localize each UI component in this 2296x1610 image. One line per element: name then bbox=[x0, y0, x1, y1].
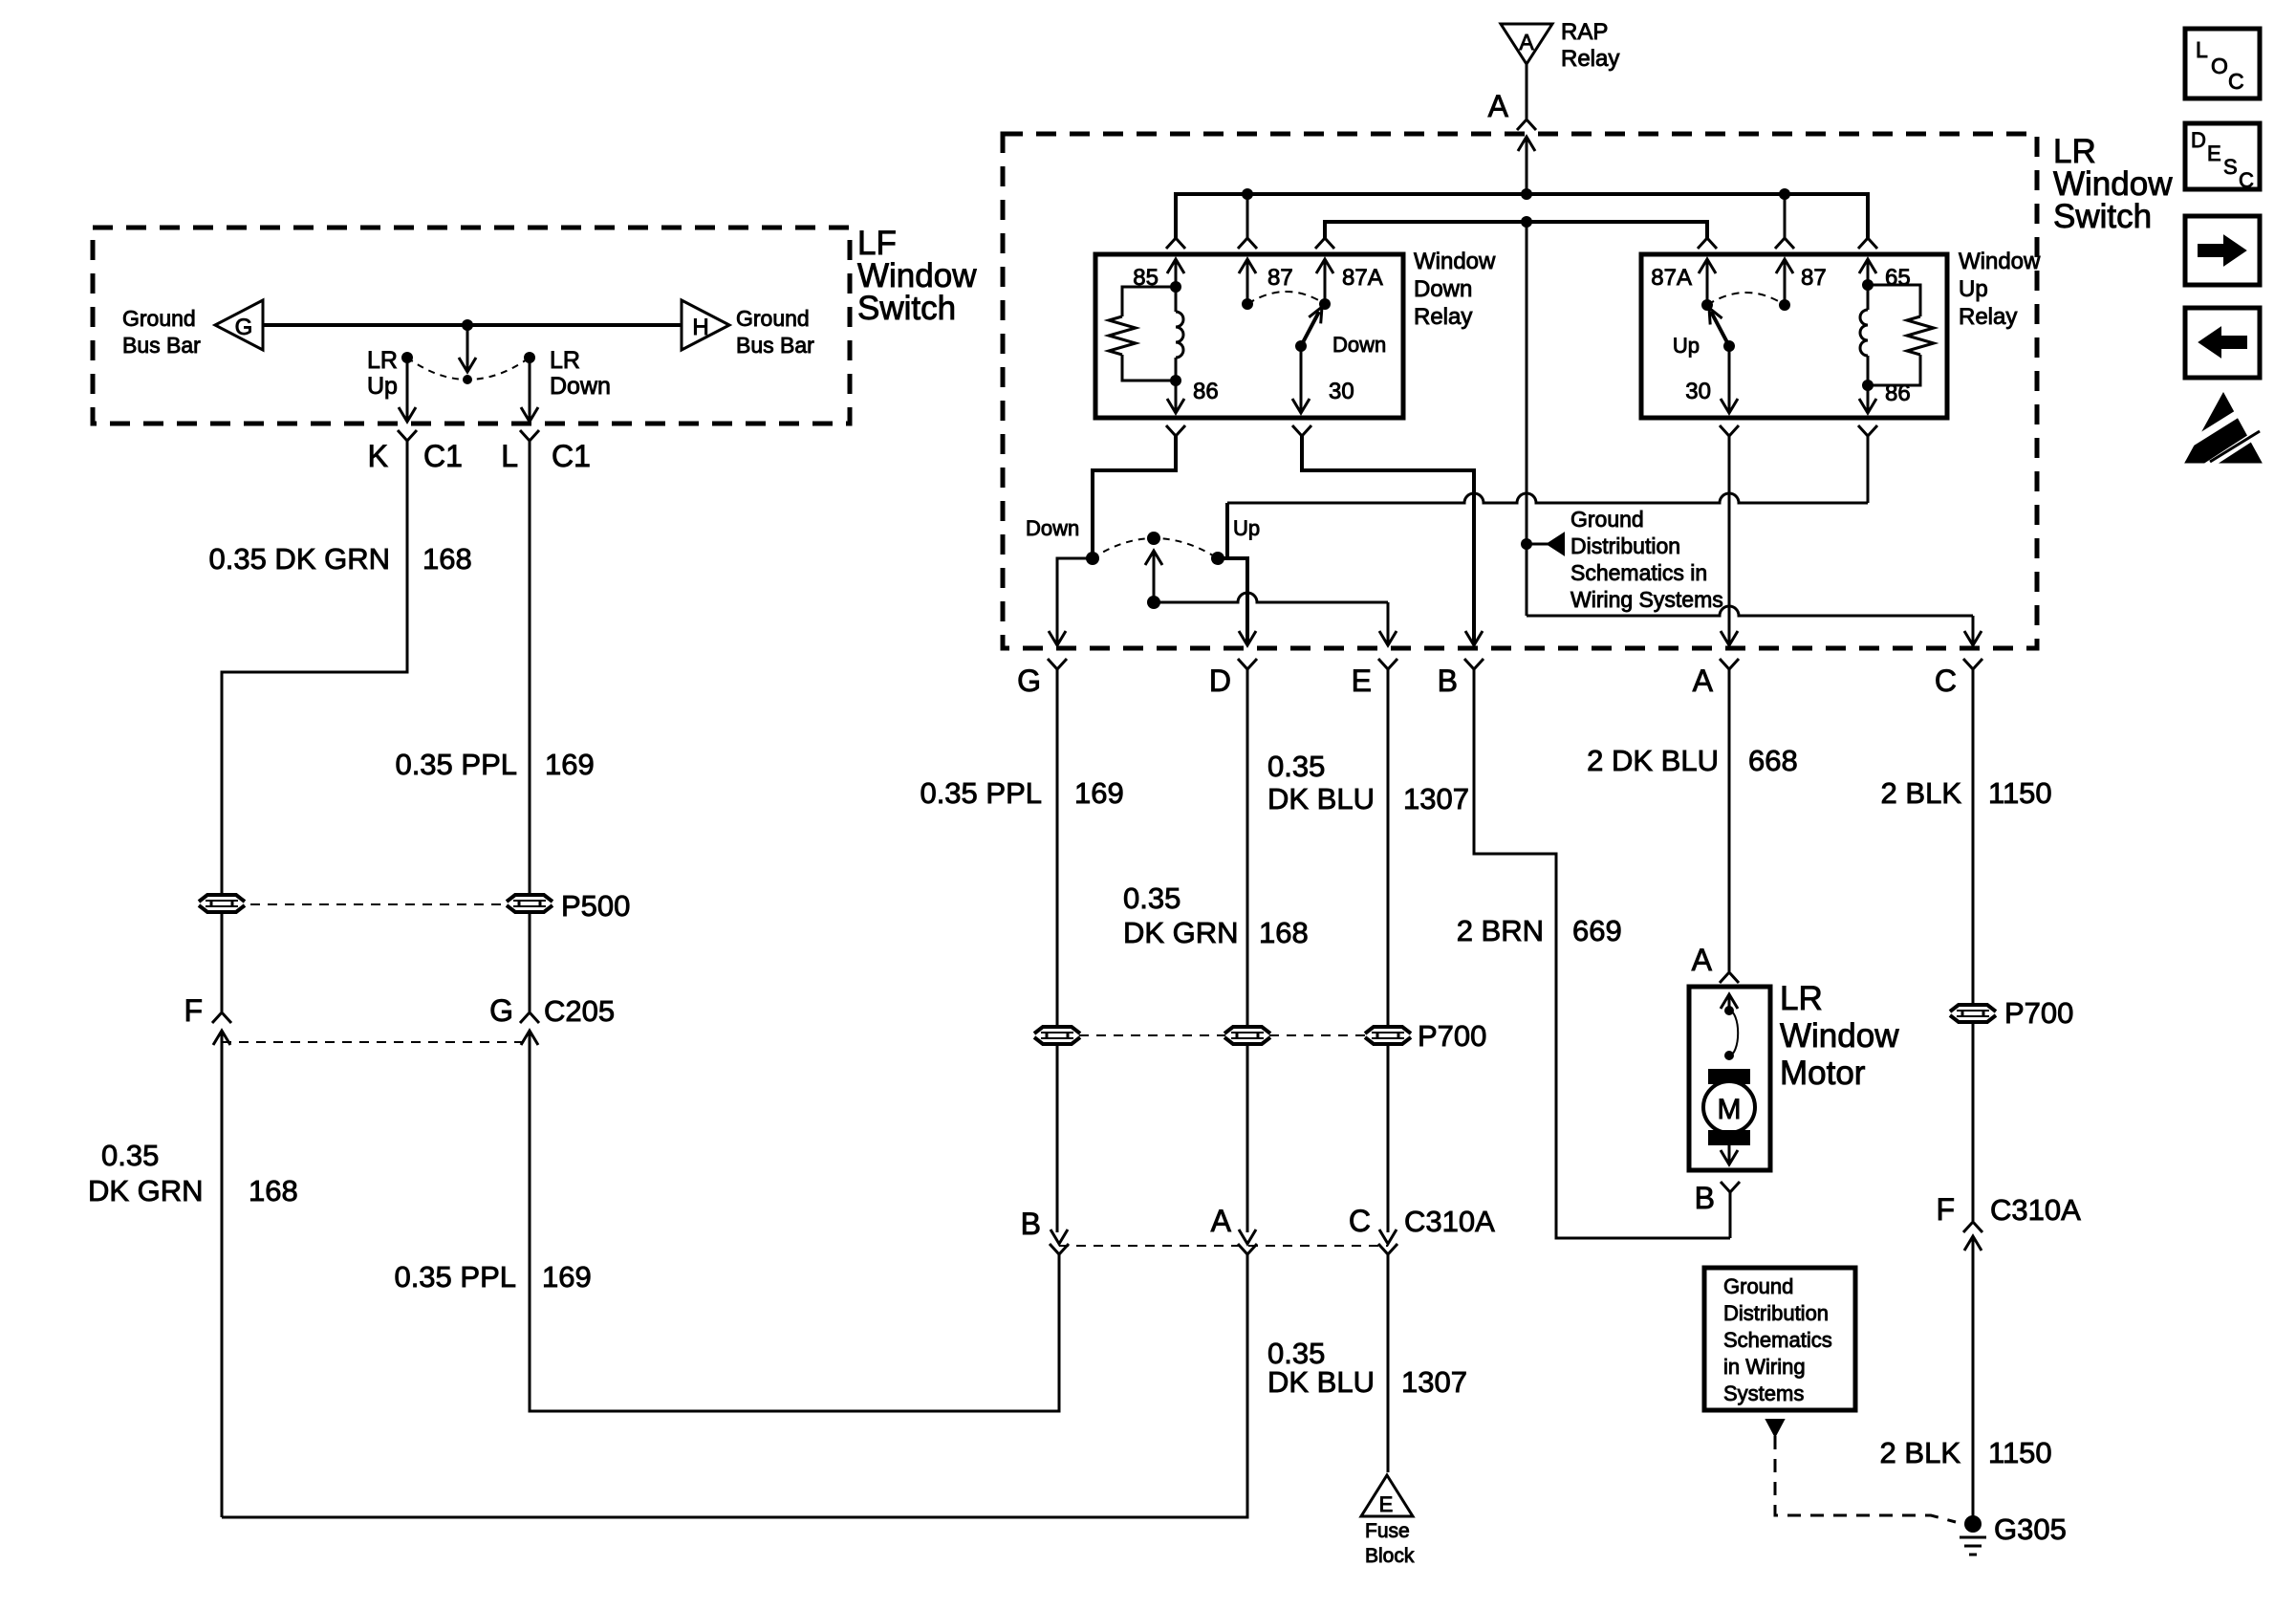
wiper arm arrow bbox=[1145, 551, 1162, 599]
svg-text:L: L bbox=[2196, 37, 2208, 62]
dashed travel arc of LF switch bbox=[407, 358, 530, 380]
wire PPL below P700 bbox=[1056, 1046, 1059, 1232]
label Window Down Relay bbox=[1414, 249, 1496, 330]
wire PPL between P500 and C205 bbox=[529, 912, 531, 1012]
node: bus1-center junction bbox=[1521, 188, 1532, 200]
label pin B bbox=[1438, 664, 1458, 698]
svg-text:168: 168 bbox=[249, 1174, 298, 1207]
svg-text:A: A bbox=[1488, 89, 1509, 123]
svg-text:0.35: 0.35 bbox=[1267, 750, 1325, 783]
pin G fork bbox=[1048, 659, 1067, 679]
supply bus 1 bbox=[1176, 194, 1868, 238]
label 30 (up relay) bbox=[1685, 379, 1711, 404]
node: up-relay coil top bbox=[1862, 279, 1874, 291]
svg-text:Ground: Ground bbox=[736, 306, 810, 331]
svg-text:C310A: C310A bbox=[1404, 1205, 1495, 1238]
label RAP Relay bbox=[1561, 19, 1619, 72]
wire: 0.35 DK GRN 168 from pin K bbox=[222, 449, 407, 895]
label Fuse Block bbox=[1365, 1520, 1415, 1567]
connector C205 pin G (fork and arrow) bbox=[520, 1012, 539, 1048]
svg-text:A: A bbox=[1693, 664, 1714, 698]
up-relay pin 87A entry arrow bbox=[1699, 259, 1716, 305]
svg-text:G: G bbox=[235, 315, 253, 340]
feed arrow into LR switch bbox=[1518, 137, 1535, 194]
svg-text:1150: 1150 bbox=[1988, 1436, 2052, 1469]
label Window Up Relay bbox=[1959, 249, 2041, 330]
label 87A (up relay) bbox=[1651, 265, 1692, 291]
svg-text:F: F bbox=[1936, 1192, 1955, 1227]
node: motor brush top bbox=[1724, 1006, 1734, 1015]
label Down (relay) bbox=[1332, 333, 1386, 357]
svg-text:Distribution: Distribution bbox=[1723, 1301, 1829, 1325]
svg-text:C1: C1 bbox=[423, 439, 463, 473]
svg-text:Schematics in: Schematics in bbox=[1570, 560, 1707, 585]
connector triangle H (ground bus bar) bbox=[682, 300, 729, 350]
label motor pin A bbox=[1692, 943, 1713, 977]
svg-text:86: 86 bbox=[1885, 381, 1911, 406]
svg-text:Bus Bar: Bus Bar bbox=[736, 333, 814, 358]
label pin K / C1 bbox=[368, 439, 463, 473]
svg-text:C: C bbox=[1349, 1204, 1371, 1238]
LR Window Motor box bbox=[1689, 987, 1770, 1170]
svg-text:87: 87 bbox=[1801, 265, 1827, 291]
label Down (switch) bbox=[1026, 516, 1079, 540]
label pin B (C310A) bbox=[1021, 1207, 1041, 1241]
wire DK BLU to fuse block bbox=[1387, 1254, 1390, 1472]
LR switch pin B exit arrow bbox=[1465, 631, 1483, 645]
down-relay pin 87 entry arrow bbox=[1239, 259, 1256, 304]
label LR Down bbox=[550, 347, 611, 400]
connector P700 lens (PPL wire) bbox=[1034, 1027, 1080, 1044]
node: LR Up contact bbox=[401, 352, 413, 363]
svg-text:DK BLU: DK BLU bbox=[1267, 1365, 1375, 1399]
svg-text:O: O bbox=[2211, 54, 2228, 78]
label 30 bbox=[1329, 379, 1354, 404]
wire wiper to pin E bbox=[1154, 593, 1388, 643]
fork above down-relay pin 87A bbox=[1315, 238, 1334, 249]
connector triangle G (ground bus bar) bbox=[215, 300, 263, 350]
node: up-relay arm pivot bbox=[1723, 340, 1735, 352]
svg-text:Relay: Relay bbox=[1959, 304, 2017, 330]
label pin C bbox=[1935, 664, 1957, 698]
label LR Up bbox=[367, 347, 398, 400]
node: down-relay 87 contact bbox=[1242, 298, 1253, 310]
label 0.35 DK GRN 168 (middle) bbox=[1123, 881, 1309, 949]
dashed link to G305 bbox=[1775, 1436, 1956, 1522]
C310A pin A arrow bbox=[1239, 1229, 1256, 1244]
svg-text:169: 169 bbox=[1074, 776, 1124, 810]
svg-text:C310A: C310A bbox=[1990, 1193, 2081, 1227]
fork above down-relay pin 85 bbox=[1166, 238, 1185, 249]
svg-text:Wiring Systems: Wiring Systems bbox=[1570, 587, 1723, 612]
svg-text:in Wiring: in Wiring bbox=[1723, 1355, 1806, 1379]
LF Window Switch dashed enclosure bbox=[93, 228, 850, 424]
wire: 0.35 PPL 169 from pin L bbox=[529, 449, 531, 895]
svg-text:669: 669 bbox=[1572, 914, 1622, 947]
svg-text:2 BRN: 2 BRN bbox=[1457, 914, 1544, 947]
node: bus2-center junction bbox=[1521, 216, 1532, 228]
label 0.35 DK GRN 168 (bottom left) bbox=[88, 1139, 298, 1207]
svg-text:Up: Up bbox=[1233, 516, 1260, 540]
node: up-relay 87 contact bbox=[1779, 299, 1790, 311]
svg-text:LR: LR bbox=[550, 347, 580, 374]
fork below up-relay pin 30 bbox=[1720, 425, 1739, 436]
node: bus1-87dn junction bbox=[1242, 188, 1253, 200]
svg-text:RAP: RAP bbox=[1561, 19, 1608, 45]
svg-text:C1: C1 bbox=[552, 439, 591, 473]
wire 2 DK BLU 668 (pin A to motor A) bbox=[1728, 679, 1731, 971]
pin L connector fork bbox=[520, 430, 539, 449]
down-relay switch arm bbox=[1301, 307, 1322, 346]
up-relay coil K2 bbox=[1860, 285, 1868, 385]
up-relay resistor R2 bbox=[1868, 285, 1934, 385]
LR switch pin E exit arrow bbox=[1379, 631, 1397, 645]
svg-text:P700: P700 bbox=[2004, 996, 2073, 1030]
label 87 (up relay) bbox=[1801, 265, 1827, 291]
svg-text:2 DK BLU: 2 DK BLU bbox=[1587, 744, 1719, 777]
svg-text:169: 169 bbox=[542, 1260, 592, 1294]
ground G305 symbol bbox=[1960, 1515, 1986, 1555]
svg-text:1150: 1150 bbox=[1988, 776, 2052, 810]
wire 0.35 DK BLU 1307 (pin E to C310A-C) bbox=[1387, 679, 1390, 1025]
svg-text:0.35 PPL: 0.35 PPL bbox=[920, 776, 1042, 810]
svg-text:F: F bbox=[184, 993, 203, 1028]
svg-text:169: 169 bbox=[545, 748, 595, 781]
Window Up Relay box bbox=[1641, 254, 1947, 418]
label 2 DK BLU 668 bbox=[1587, 744, 1798, 777]
svg-text:Block: Block bbox=[1365, 1545, 1415, 1567]
svg-text:Relay: Relay bbox=[1561, 46, 1619, 72]
svg-text:Switch: Switch bbox=[2053, 198, 2152, 235]
wire up-relay 86 to Up contact bbox=[1227, 436, 1868, 558]
label 0.35 PPL 169 (middle) bbox=[920, 776, 1123, 810]
svg-text:Motor: Motor bbox=[1780, 1055, 1866, 1092]
svg-text:Down: Down bbox=[1414, 276, 1472, 302]
fork above up-relay pin 65 bbox=[1858, 238, 1877, 249]
svg-text:Up: Up bbox=[1673, 334, 1700, 358]
ground distribution pointer bbox=[1527, 533, 1564, 555]
LR switch pin A exit arrow bbox=[1721, 631, 1738, 645]
svg-text:1307: 1307 bbox=[1403, 782, 1469, 816]
svg-text:168: 168 bbox=[1259, 916, 1309, 949]
svg-text:M: M bbox=[1718, 1094, 1742, 1125]
svg-text:Schematics: Schematics bbox=[1723, 1328, 1832, 1352]
label pin G bbox=[1017, 664, 1041, 698]
RAP Relay triangle A bbox=[1501, 24, 1552, 64]
label 86 (up relay) bbox=[1885, 381, 1911, 406]
svg-text:0.35: 0.35 bbox=[1123, 881, 1180, 915]
label LR Window Switch bbox=[2053, 133, 2173, 235]
label 0.35 DK BLU 1307 (lower) bbox=[1267, 1337, 1467, 1399]
motor internal exit arrow bbox=[1721, 1145, 1738, 1164]
svg-text:A: A bbox=[1211, 1204, 1232, 1238]
svg-text:Ground: Ground bbox=[1570, 507, 1644, 532]
fork above up-relay pin 87A bbox=[1698, 238, 1717, 249]
connector C310A pin F (fork and arrow) bbox=[1963, 1222, 1982, 1252]
wire PPL from C205-G down and over to C310A pin B bbox=[530, 1048, 1059, 1411]
label 2 BLK 1150 (upper) bbox=[1881, 776, 2052, 810]
node: switch common junction bbox=[462, 319, 473, 331]
svg-text:B: B bbox=[1021, 1207, 1041, 1241]
label 0.35 PPL 169 (lower) bbox=[394, 1260, 591, 1294]
label 0.35 DK GRN 168 (top) bbox=[208, 542, 471, 576]
supply bus 2 bbox=[1325, 222, 1707, 238]
label G305 bbox=[1994, 1512, 2067, 1546]
svg-text:C: C bbox=[2239, 168, 2254, 192]
svg-text:Systems: Systems bbox=[1723, 1382, 1804, 1405]
svg-text:Bus Bar: Bus Bar bbox=[122, 333, 201, 358]
svg-text:C: C bbox=[1935, 664, 1957, 698]
C310A pin B fork bbox=[1050, 1244, 1069, 1254]
svg-text:0.35 PPL: 0.35 PPL bbox=[394, 1260, 516, 1294]
wire Up contact to pin D bbox=[1218, 558, 1247, 643]
svg-text:P700: P700 bbox=[1418, 1019, 1486, 1053]
label pin A bbox=[1693, 664, 1714, 698]
pin K connector fork bbox=[398, 430, 417, 449]
label pin F / C310A bbox=[1936, 1192, 2081, 1227]
Ground Distribution Schematics box bbox=[1704, 1268, 1855, 1410]
connector P500 lens (PPL wire) bbox=[507, 895, 552, 912]
svg-text:D: D bbox=[2191, 128, 2206, 152]
svg-text:G: G bbox=[1017, 664, 1041, 698]
fork above down-relay pin 87 bbox=[1238, 238, 1257, 249]
svg-text:Up: Up bbox=[367, 373, 398, 400]
node: Down contact bbox=[1086, 552, 1099, 565]
svg-text:2 BLK: 2 BLK bbox=[1881, 776, 1962, 810]
node: down-relay arm pivot bbox=[1295, 340, 1307, 352]
svg-text:0.35 DK GRN: 0.35 DK GRN bbox=[208, 542, 390, 576]
svg-text:DK BLU: DK BLU bbox=[1267, 782, 1375, 816]
svg-text:Ground: Ground bbox=[1723, 1274, 1793, 1298]
svg-text:C205: C205 bbox=[544, 994, 615, 1028]
svg-text:LR: LR bbox=[1780, 980, 1823, 1017]
svg-text:L: L bbox=[501, 439, 518, 473]
LR switch pin G exit arrow bbox=[1049, 631, 1066, 645]
wire 2 BLK to ground G305 bbox=[1972, 1252, 1975, 1520]
svg-text:87A: 87A bbox=[1651, 265, 1692, 291]
label 2 BRN 669 bbox=[1457, 914, 1622, 947]
svg-text:Window: Window bbox=[1959, 249, 2041, 274]
label 86 bbox=[1193, 379, 1219, 404]
fuse block triangle E bbox=[1361, 1475, 1413, 1516]
motor brush arc bbox=[1729, 1011, 1738, 1055]
svg-text:E: E bbox=[1352, 664, 1372, 698]
motor internal entry arrow bbox=[1721, 994, 1738, 1011]
svg-text:B: B bbox=[1695, 1181, 1715, 1215]
svg-text:Window: Window bbox=[1414, 249, 1496, 274]
label 2 BLK 1150 (lower) bbox=[1880, 1436, 2052, 1469]
label pin E bbox=[1352, 664, 1372, 698]
svg-text:Up: Up bbox=[1959, 276, 1988, 302]
svg-text:LR: LR bbox=[367, 347, 398, 374]
node: down-relay 87A contact bbox=[1319, 298, 1331, 310]
wire RAP relay to LR switch pin A bbox=[1526, 64, 1528, 119]
svg-text:G305: G305 bbox=[1994, 1512, 2067, 1546]
wire down-relay 30 to pin B bbox=[1302, 436, 1474, 643]
node: LR Down contact bbox=[524, 352, 535, 363]
down-relay pin 85 entry arrow bbox=[1167, 259, 1184, 287]
fork below down-relay pin 86 bbox=[1166, 425, 1185, 436]
wire up-relay 30 to pin A bbox=[1728, 436, 1731, 643]
C310A pin B arrow bbox=[1051, 1229, 1068, 1244]
up-relay pin 87 entry arrow bbox=[1776, 259, 1793, 305]
connector P700 lens (DK BLU wire) bbox=[1365, 1027, 1411, 1044]
up-relay pin 30 exit arrow bbox=[1721, 346, 1738, 413]
label Up (switch) bbox=[1233, 516, 1260, 540]
label 85 bbox=[1133, 265, 1159, 291]
down-relay resistor R1 bbox=[1109, 287, 1176, 381]
motor pin B fork bbox=[1721, 1182, 1740, 1238]
svg-text:S: S bbox=[2223, 155, 2238, 179]
ground bus bar label (right) bbox=[736, 306, 814, 358]
wire 0.35 PPL 169 (pin G to C310A-B) bbox=[1056, 679, 1059, 1025]
wire center feed to pin C bbox=[1527, 222, 1973, 643]
node: up-relay coil bottom bbox=[1862, 380, 1874, 391]
node: common arm contact dot bbox=[463, 375, 472, 384]
label pin L / C1 bbox=[501, 439, 591, 473]
svg-text:86: 86 bbox=[1193, 379, 1219, 404]
motor pin A fork bbox=[1720, 972, 1739, 983]
ground bus bar label (left) bbox=[122, 306, 201, 358]
label 0.35 DK BLU 1307 (upper) bbox=[1267, 750, 1469, 816]
svg-text:0.35: 0.35 bbox=[101, 1139, 159, 1172]
svg-text:DK GRN: DK GRN bbox=[1123, 916, 1239, 949]
svg-text:E: E bbox=[2207, 141, 2221, 165]
down-relay pin 87A entry arrow bbox=[1316, 259, 1333, 304]
icon forward arrow box bbox=[2185, 216, 2260, 285]
wire DK GRN from C205-F to bottom run bbox=[221, 1048, 224, 1517]
svg-text:668: 668 bbox=[1748, 744, 1798, 777]
pin C fork bbox=[1963, 659, 1982, 679]
Window Down Relay box bbox=[1095, 254, 1403, 418]
fork above up-relay pin 87 bbox=[1775, 238, 1794, 249]
pin E fork bbox=[1378, 659, 1397, 679]
down-relay pin 86 exit arrow bbox=[1167, 381, 1184, 413]
pin B fork bbox=[1464, 659, 1484, 679]
svg-text:Down: Down bbox=[550, 373, 611, 400]
label LF Window Switch bbox=[857, 225, 977, 327]
switch common arm arrow bbox=[459, 325, 476, 372]
svg-text:K: K bbox=[368, 439, 388, 473]
node: ground distribution tap bbox=[1521, 538, 1532, 550]
node: up-relay 87A contact bbox=[1701, 299, 1713, 311]
svg-text:Down: Down bbox=[1332, 333, 1386, 357]
svg-text:1307: 1307 bbox=[1401, 1365, 1467, 1399]
svg-text:B: B bbox=[1438, 664, 1458, 698]
C310A pin C fork bbox=[1378, 1244, 1397, 1254]
LR Window Switch dashed enclosure bbox=[1003, 134, 2037, 648]
icon back arrow box bbox=[2185, 308, 2260, 378]
wire 0.35 DK GRN 168 (pin D to C310A-A) bbox=[1246, 679, 1249, 1025]
label pin D bbox=[1209, 664, 1231, 698]
dashed travel arc of LR switch bbox=[1093, 538, 1218, 558]
svg-text:DK GRN: DK GRN bbox=[88, 1174, 204, 1207]
label Up (relay) bbox=[1673, 334, 1700, 358]
down-relay pin 30 exit arrow bbox=[1292, 346, 1310, 413]
label pin G / C205 bbox=[489, 993, 615, 1028]
wire 2 BLK between P700 and C310A-F bbox=[1972, 1024, 1975, 1221]
svg-text:A: A bbox=[1519, 30, 1534, 54]
wire down-relay 86 to Down contact bbox=[1093, 436, 1176, 555]
motor armature symbol M bbox=[1703, 1069, 1755, 1145]
up-relay pin 86 exit arrow bbox=[1859, 385, 1876, 413]
fork below down-relay pin 30 bbox=[1292, 425, 1311, 436]
svg-text:87: 87 bbox=[1267, 265, 1293, 291]
node: Up contact bbox=[1211, 552, 1224, 565]
svg-text:30: 30 bbox=[1685, 379, 1711, 404]
wire 2 BRN 669 (pin B to motor B) bbox=[1474, 679, 1730, 1238]
wire Down contact to pin G bbox=[1057, 558, 1093, 643]
wire DK GRN below P700 bbox=[1246, 1046, 1249, 1232]
node: down-relay coil bottom bbox=[1170, 375, 1181, 386]
label ground distribution schematics (pointer) bbox=[1570, 507, 1723, 612]
LR switch pin C exit arrow bbox=[1964, 631, 1982, 645]
connector P500 dashed tie and name bbox=[250, 889, 630, 923]
icon LOC box bbox=[2185, 29, 2260, 98]
connector C205 dashed tie and name bbox=[222, 1041, 530, 1043]
wire G-H bus inside LF switch bbox=[263, 323, 682, 327]
label ground distribution schematics (box) bbox=[1723, 1274, 1832, 1405]
node: bus1-87up junction bbox=[1779, 188, 1790, 200]
up-relay pin 65 entry arrow bbox=[1859, 259, 1876, 285]
C310A pin C arrow bbox=[1379, 1229, 1397, 1244]
label pin C / C310A bbox=[1349, 1204, 1495, 1238]
svg-text:G: G bbox=[489, 993, 513, 1028]
connector C205 pin F (fork and arrow) bbox=[212, 1012, 231, 1048]
label pin A (C310A) bbox=[1211, 1204, 1232, 1238]
svg-text:Window: Window bbox=[1780, 1017, 1899, 1055]
label 65 bbox=[1885, 265, 1911, 291]
svg-text:0.35 PPL: 0.35 PPL bbox=[395, 748, 517, 781]
svg-text:87A: 87A bbox=[1342, 265, 1383, 291]
svg-text:Switch: Switch bbox=[857, 290, 956, 327]
svg-text:P500: P500 bbox=[561, 889, 630, 923]
wire bus1 to 87dn fork bbox=[1246, 194, 1249, 238]
connector P700 lens (DK GRN wire) bbox=[1224, 1027, 1270, 1044]
node: motor brush bottom bbox=[1724, 1051, 1734, 1060]
label motor pin B bbox=[1695, 1181, 1715, 1215]
label LR Window Motor bbox=[1780, 980, 1899, 1092]
fork below up-relay pin 86 bbox=[1858, 425, 1877, 436]
svg-text:168: 168 bbox=[422, 542, 472, 576]
node: down-relay coil top bbox=[1170, 281, 1181, 293]
svg-text:30: 30 bbox=[1329, 379, 1354, 404]
down-relay dashed throw arc bbox=[1247, 292, 1325, 304]
up-relay dashed throw arc bbox=[1707, 293, 1785, 305]
node: wiper bottom junction bbox=[1147, 596, 1160, 609]
label pin A (top) bbox=[1488, 89, 1509, 123]
label 87 bbox=[1267, 265, 1293, 291]
svg-text:Distribution: Distribution bbox=[1570, 533, 1680, 558]
svg-text:Down: Down bbox=[1026, 516, 1079, 540]
down-relay coil K1 bbox=[1176, 287, 1183, 381]
icon ESD warning symbol bbox=[2177, 393, 2265, 470]
label 87A bbox=[1342, 265, 1383, 291]
connector C310A dashed tie bbox=[1059, 1245, 1388, 1247]
svg-text:E: E bbox=[1379, 1492, 1394, 1516]
svg-text:Fuse: Fuse bbox=[1365, 1520, 1410, 1542]
wire LR Up contact to pin K bbox=[399, 358, 416, 422]
connector P500 lens (DK GRN wire) bbox=[199, 895, 245, 912]
LR switch pin D exit arrow bbox=[1239, 631, 1256, 645]
node: wiper top contact bbox=[1147, 532, 1160, 545]
label pin F bbox=[184, 993, 203, 1028]
wire: bottom DK GRN run to C310A pin A bbox=[222, 1254, 1247, 1517]
svg-text:2 BLK: 2 BLK bbox=[1880, 1436, 1961, 1469]
label 0.35 PPL 169 (upper) bbox=[395, 748, 594, 781]
ground distribution box pointer triangle bbox=[1766, 1420, 1784, 1436]
svg-text:65: 65 bbox=[1885, 265, 1911, 291]
